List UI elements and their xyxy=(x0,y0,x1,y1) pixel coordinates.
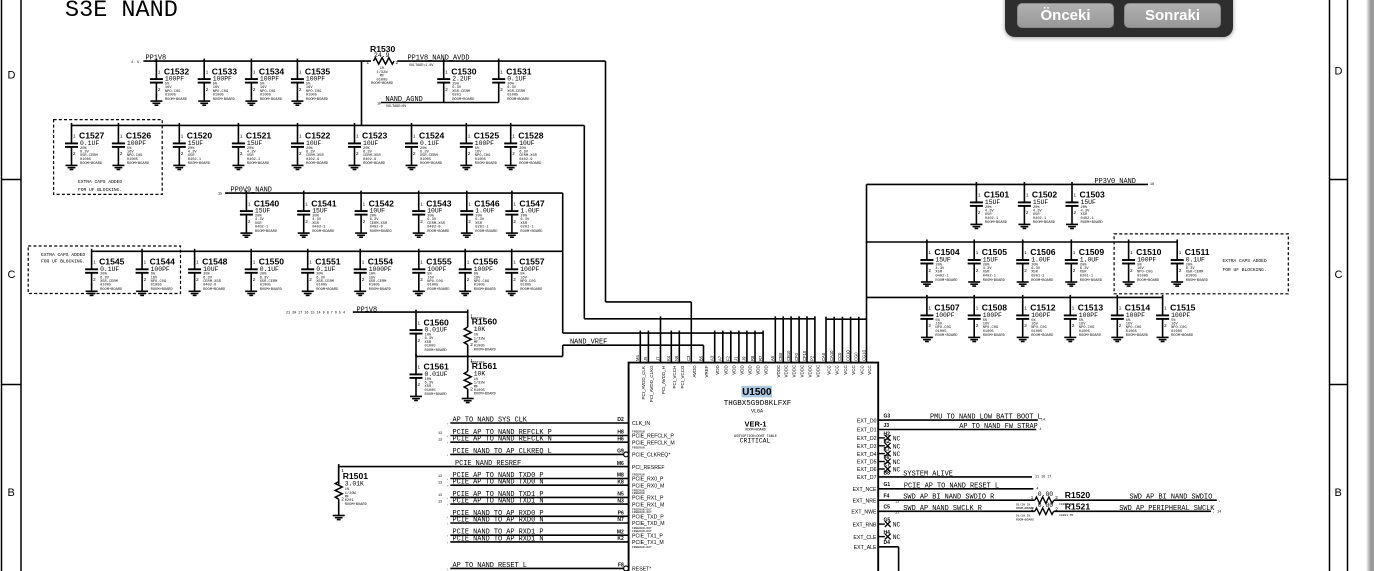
svg-text:EXT_D4: EXT_D4 xyxy=(857,452,877,458)
svg-text:2: 2 xyxy=(1119,323,1122,328)
button Sonraki xyxy=(1124,3,1221,28)
ground xyxy=(349,165,361,169)
svg-text:M4: M4 xyxy=(635,355,640,361)
svg-text:0402-9: 0402-9 xyxy=(427,225,440,229)
capacitor C1503 xyxy=(1066,182,1106,229)
svg-text:ROOM+BOARD: ROOM+BOARD xyxy=(427,288,450,292)
svg-text:2: 2 xyxy=(928,268,931,273)
svg-text:R8: R8 xyxy=(750,355,755,361)
svg-text:2: 2 xyxy=(500,87,503,92)
ground xyxy=(506,233,518,237)
svg-text:VDD: VDD xyxy=(723,364,728,374)
ground xyxy=(921,337,933,341)
svg-text:ROOM+BOARD: ROOM+BOARD xyxy=(151,288,174,292)
svg-text:C: C xyxy=(8,269,16,281)
capacitor C1524 xyxy=(405,123,445,170)
capacitor C1534 xyxy=(245,59,285,106)
svg-text:01005: 01005 xyxy=(425,344,436,348)
svg-text:VDDC: VDDC xyxy=(784,364,789,378)
find toolbar xyxy=(1005,0,1233,37)
ground xyxy=(968,282,980,286)
capacitor C1511 xyxy=(1171,240,1210,287)
wire row4 PP0V9 bus xyxy=(92,250,563,252)
svg-text:1: 1 xyxy=(299,69,302,74)
svg-text:M8: M8 xyxy=(617,473,624,479)
svg-text:VDD: VDD xyxy=(715,364,720,374)
svg-text:R1521: R1521 xyxy=(1065,501,1091,511)
svg-text:M6: M6 xyxy=(617,461,624,467)
svg-text:01005: 01005 xyxy=(260,93,271,97)
capacitor C1515 xyxy=(1156,295,1196,342)
ground xyxy=(1017,282,1029,286)
svg-text:SYSTEM ALIVE: SYSTEM ALIVE xyxy=(903,470,953,478)
svg-text:01005: 01005 xyxy=(420,158,431,162)
ground xyxy=(232,165,244,169)
svg-text:ROOM+BOARD: ROOM+BOARD xyxy=(983,334,1006,338)
ground xyxy=(112,165,124,169)
U1500 left pin M6 PCI_RESREF / net PCIE_NAND_RESREF xyxy=(339,460,665,471)
svg-text:H8: H8 xyxy=(617,430,624,436)
svg-text:ROOM+BOARD: ROOM+BOARD xyxy=(935,279,958,283)
svg-text:SWD AP PERIPHERAL SWCLK: SWD AP PERIPHERAL SWCLK xyxy=(1119,505,1215,513)
capacitor C1544 xyxy=(136,249,176,296)
ground xyxy=(413,291,425,295)
svg-text:ROOM+BOARD: ROOM+BOARD xyxy=(369,288,392,292)
svg-text:PCIE NAND TO AP RXD0 N: PCIE NAND TO AP RXD0 N xyxy=(453,517,544,525)
frame right inner line xyxy=(1329,0,1331,571)
svg-text:1: 1 xyxy=(1074,193,1077,198)
svg-text:N3: N3 xyxy=(617,498,624,504)
svg-text:0201-1: 0201-1 xyxy=(1031,274,1045,278)
svg-text:N5: N5 xyxy=(617,492,624,498)
svg-text:13: 13 xyxy=(438,439,442,443)
wire right row2 bus xyxy=(867,241,1178,243)
U1500 left pin K2 PCIE_TX1_M / net PCIE_NAND_TO_AP_RXD1_N xyxy=(447,535,664,549)
svg-text:15: 15 xyxy=(218,193,222,197)
svg-text:G1: G1 xyxy=(884,482,891,488)
svg-text:ROOM+BOARD: ROOM+BOARD xyxy=(203,288,226,292)
svg-text:VCC: VCC xyxy=(859,364,864,374)
svg-text:K2: K2 xyxy=(617,536,624,542)
U1500 top pin M4 PCI_AVDD_CLK xyxy=(635,331,646,400)
svg-text:ROOM+BOARD: ROOM+BOARD xyxy=(370,230,393,234)
svg-text:K8: K8 xyxy=(617,479,624,485)
svg-text:F4: F4 xyxy=(884,494,890,500)
svg-text:13: 13 xyxy=(438,482,442,486)
U1500 right pin C7 EXT_D6 xyxy=(857,462,901,473)
note extra caps row4 xyxy=(41,252,85,265)
svg-text:1: 1 xyxy=(362,260,365,265)
svg-text:EXTRA CAPS ADDED: EXTRA CAPS ADDED xyxy=(78,179,122,185)
ground xyxy=(1065,282,1077,286)
svg-text:R7: R7 xyxy=(758,355,763,361)
node PP1V8_NAND_AVDD xyxy=(408,55,470,69)
U1500 top pin CB0 VDDC xyxy=(778,316,789,377)
svg-text:J9: J9 xyxy=(742,356,747,361)
capacitor C1530 xyxy=(437,59,477,103)
dashed box extra caps row2 xyxy=(54,120,163,195)
ground xyxy=(970,224,982,228)
svg-text:2: 2 xyxy=(470,386,473,391)
svg-text:ROOM+BOARD: ROOM+BOARD xyxy=(427,230,450,234)
svg-text:13: 13 xyxy=(438,475,442,479)
svg-text:13: 13 xyxy=(438,494,442,498)
svg-text:1: 1 xyxy=(120,134,123,139)
svg-text:,: , xyxy=(1219,500,1221,504)
svg-text:ROOM+BOARD: ROOM+BOARD xyxy=(1079,334,1102,338)
svg-text:VDDC: VDDC xyxy=(776,364,781,378)
svg-text:0201: 0201 xyxy=(452,93,462,97)
svg-text:ROOM+BOARD: ROOM+BOARD xyxy=(127,162,150,166)
U1500 top pin CF0 VDDC xyxy=(794,316,805,377)
svg-text:CB10: CB10 xyxy=(786,350,791,361)
svg-text:EXT_D5: EXT_D5 xyxy=(857,460,877,466)
U1500 top pin R8 VDD xyxy=(750,331,761,375)
svg-text:01005: 01005 xyxy=(1031,330,1042,334)
svg-text:ROOM+BOARD: ROOM+BOARD xyxy=(507,98,530,102)
svg-text:01005: 01005 xyxy=(165,93,176,97)
svg-text:N6: N6 xyxy=(674,355,679,361)
wire NAND_VREF riser xyxy=(562,345,564,356)
svg-text:0402-1: 0402-1 xyxy=(1081,217,1095,221)
svg-text:,: , xyxy=(447,515,449,519)
svg-text:G9: G9 xyxy=(617,449,624,455)
svg-text:ROOM+BOARD: ROOM+BOARD xyxy=(306,162,329,166)
svg-text:EXT_NRE: EXT_NRE xyxy=(853,498,877,504)
svg-text:A7: A7 xyxy=(718,355,723,361)
svg-text:1: 1 xyxy=(299,134,302,139)
svg-text:1: 1 xyxy=(1031,495,1034,500)
U1500 right pin E7 EXT_D4 xyxy=(857,447,901,458)
svg-text:01005: 01005 xyxy=(983,330,994,334)
svg-text:0201-1: 0201-1 xyxy=(1080,274,1094,278)
wire NAND_VREF mid bus xyxy=(416,355,563,357)
svg-text:1: 1 xyxy=(420,201,423,206)
capacitor C1526 xyxy=(112,123,152,170)
svg-text:R1561: R1561 xyxy=(472,361,498,371)
svg-text:01005: 01005 xyxy=(1186,274,1197,278)
svg-text:PCI_AVDD_CLKG: PCI_AVDD_CLKG xyxy=(649,365,654,402)
svg-text:G3: G3 xyxy=(884,414,891,420)
capacitor C1548 xyxy=(188,249,228,296)
svg-text:2: 2 xyxy=(363,219,366,224)
svg-text:4: 4 xyxy=(1039,428,1041,432)
capacitor C1541 xyxy=(297,191,337,238)
svg-text:VDDC: VDDC xyxy=(800,364,805,378)
capacitor C1554 xyxy=(354,249,394,296)
capacitor C1501 xyxy=(970,182,1010,229)
svg-text:01005: 01005 xyxy=(369,284,380,288)
ground xyxy=(86,291,98,295)
svg-text:PCIE AP TO NAND RESET L: PCIE AP TO NAND RESET L xyxy=(904,482,999,490)
ground xyxy=(460,165,472,169)
svg-text:C: C xyxy=(1335,269,1343,281)
svg-text:ROOM+BOARD: ROOM+BOARD xyxy=(520,230,543,234)
resistor R1530 xyxy=(367,44,399,86)
capacitor C1513 xyxy=(1064,295,1104,342)
svg-text:B: B xyxy=(8,487,15,499)
svg-text:01005: 01005 xyxy=(427,284,438,288)
svg-text:1: 1 xyxy=(976,306,979,311)
capacitor C1540 xyxy=(240,191,280,238)
capacitor C1512 xyxy=(1016,295,1056,342)
svg-text:0402-1: 0402-1 xyxy=(188,158,202,162)
svg-text:1: 1 xyxy=(500,69,503,74)
svg-text:EXT_NCE: EXT_NCE xyxy=(853,487,877,493)
svg-text:ROOM+BOARD: ROOM+BOARD xyxy=(520,288,543,292)
ground xyxy=(245,101,257,105)
svg-text:0402-9: 0402-9 xyxy=(363,158,376,162)
U1500 top pin K4 PCI_VCCH xyxy=(666,331,677,389)
svg-text:1: 1 xyxy=(196,260,199,265)
wire VCC bus xyxy=(826,318,867,320)
resistor R1560 xyxy=(464,310,497,357)
svg-text:J5: J5 xyxy=(643,356,648,361)
svg-text:1: 1 xyxy=(93,260,96,265)
U1500 left pin G9 PCIE_CLKREQ* / net PCIE_NAND_TO_AP_CLKREQ_L xyxy=(447,448,670,459)
svg-text:EXT_D6: EXT_D6 xyxy=(857,467,877,473)
ground xyxy=(506,291,518,295)
svg-text:1: 1 xyxy=(418,320,421,325)
svg-text:ROOM+BOARD: ROOM+BOARD xyxy=(363,162,386,166)
capacitor C1525 xyxy=(460,123,500,170)
svg-text:,: , xyxy=(447,522,449,526)
svg-text:NC: NC xyxy=(893,522,901,529)
svg-text:,: , xyxy=(447,496,449,500)
svg-text:0402-1: 0402-1 xyxy=(312,225,326,229)
wire row2 bus drop to VDDC bus xyxy=(583,125,585,318)
svg-text:VDD: VDD xyxy=(764,364,769,374)
U1500 top pin CA0 VCC xyxy=(821,317,832,375)
ground xyxy=(413,233,425,237)
svg-text:NC: NC xyxy=(893,459,901,466)
svg-text:1: 1 xyxy=(418,365,421,370)
capacitor C1509 xyxy=(1065,240,1105,287)
svg-text:0402-1: 0402-1 xyxy=(247,158,261,162)
svg-text:VER-1: VER-1 xyxy=(744,420,766,429)
svg-text:ROOM+BOARD: ROOM+BOARD xyxy=(371,82,394,86)
frame left row divider C/B xyxy=(2,384,22,386)
ground xyxy=(505,165,517,169)
wire VDD bus xyxy=(563,332,763,334)
svg-text:2: 2 xyxy=(356,151,359,156)
svg-text:RESET*: RESET* xyxy=(632,567,651,571)
svg-text:ROOM+BOARD: ROOM+BOARD xyxy=(165,98,188,102)
svg-text:CLK_IN: CLK_IN xyxy=(632,421,650,427)
svg-text:2: 2 xyxy=(1073,268,1076,273)
svg-text:3.01K: 3.01K xyxy=(345,481,364,488)
svg-text:0402-1: 0402-1 xyxy=(255,225,269,229)
svg-text:2: 2 xyxy=(513,219,516,224)
svg-text:2: 2 xyxy=(299,87,302,92)
ground xyxy=(245,291,257,295)
ground xyxy=(66,165,78,169)
net SWD_AP_BI_NAND_SWDIO_R xyxy=(878,494,1035,511)
svg-text:EXT_RNB: EXT_RNB xyxy=(853,522,877,528)
svg-text:CA10: CA10 xyxy=(829,350,834,361)
svg-text:2: 2 xyxy=(73,151,76,156)
wire PP0V9 rail xyxy=(225,192,563,194)
svg-text:A5: A5 xyxy=(770,355,775,361)
U1500 top pin CG10 VCC xyxy=(861,349,872,374)
svg-text:D: D xyxy=(1335,66,1343,78)
svg-text:VCC: VCC xyxy=(867,364,872,374)
capacitor C1506 xyxy=(1016,240,1056,287)
capacitor C1545 xyxy=(85,249,125,296)
wire PP1V8_NAND_AVDD xyxy=(397,60,605,62)
U1500 top pin C3 AVDD xyxy=(686,355,697,378)
svg-text:1: 1 xyxy=(356,134,359,139)
svg-text:ROOM+BOARD: ROOM+BOARD xyxy=(260,288,283,292)
capacitor C1523 xyxy=(348,123,388,170)
svg-text:01005: 01005 xyxy=(306,93,317,97)
U1500 right pin C5 EXT_NWE xyxy=(851,505,890,516)
svg-text:2: 2 xyxy=(196,277,199,282)
resistor R1521 xyxy=(1031,501,1091,514)
dashed box extra caps row4 xyxy=(28,246,180,294)
svg-text:2: 2 xyxy=(206,87,209,92)
U1500 top pin J1 VDD xyxy=(734,331,745,375)
svg-text:N7: N7 xyxy=(617,517,624,523)
U1500 top pin A7 VDD xyxy=(718,331,729,375)
svg-text:THGBX5G9D8KLFXF: THGBX5G9D8KLFXF xyxy=(724,400,792,408)
svg-text:1: 1 xyxy=(248,201,251,206)
svg-text:0201-1: 0201-1 xyxy=(520,225,534,229)
ground xyxy=(150,101,162,105)
svg-text:ROOM+BOARD: ROOM+BOARD xyxy=(247,162,270,166)
svg-text:PCIE_RX0_P: PCIE_RX0_P xyxy=(632,477,664,483)
frame right row divider C/B xyxy=(1330,384,1348,386)
frame right row divider D/C xyxy=(1330,179,1348,181)
svg-text:2: 2 xyxy=(299,151,302,156)
U1500 right pin H4 EXT_CLE xyxy=(853,530,900,541)
ground xyxy=(354,291,366,295)
svg-text:2: 2 xyxy=(158,87,161,92)
svg-text:01005: 01005 xyxy=(260,284,271,288)
svg-text:FREERUN-OUT: FREERUN-OUT xyxy=(632,511,652,514)
svg-text:F8: F8 xyxy=(618,563,624,569)
net SWD_AP_BI_NAND_SWDIO xyxy=(1054,494,1221,506)
svg-text:ROOM+BOARD: ROOM+BOARD xyxy=(983,279,1006,283)
svg-text:0.00: 0.00 xyxy=(1038,491,1054,498)
svg-text:ROOM+BOARD: ROOM+BOARD xyxy=(475,230,498,234)
svg-text:CF0: CF0 xyxy=(794,352,799,361)
ground xyxy=(1171,282,1183,286)
U1500 right pin G1 EXT_NCE xyxy=(853,482,1039,493)
svg-text:VCC: VCC xyxy=(843,364,848,374)
wire AVDD vertical down xyxy=(605,61,607,302)
svg-text:0402-9: 0402-9 xyxy=(306,158,319,162)
svg-text:FOR UF BLOCKING.: FOR UF BLOCKING. xyxy=(1223,267,1267,273)
U1500 top pin J7 PCI_AVDD_H xyxy=(655,316,666,394)
ground xyxy=(298,233,310,237)
svg-text:EXT_NWE: EXT_NWE xyxy=(851,510,877,516)
svg-text:ROOM+BOARD: ROOM+BOARD xyxy=(745,429,765,433)
svg-text:ROOM+BOARD: ROOM+BOARD xyxy=(1171,334,1194,338)
svg-text:A3: A3 xyxy=(710,355,715,361)
svg-text:CC0: CC0 xyxy=(837,352,842,361)
resistor R1561 xyxy=(462,354,498,403)
ground xyxy=(355,233,367,237)
wire NAND_AGND xyxy=(381,102,499,104)
svg-text:PCIE NAND RESREF: PCIE NAND RESREF xyxy=(455,460,521,468)
svg-text:,: , xyxy=(447,503,449,507)
svg-text:2: 2 xyxy=(420,277,423,282)
svg-text:PCI_RESREF: PCI_RESREF xyxy=(632,465,665,471)
ground xyxy=(1123,282,1135,286)
svg-text:1: 1 xyxy=(206,69,209,74)
svg-text:2: 2 xyxy=(253,277,256,282)
svg-text:1: 1 xyxy=(1031,506,1034,511)
svg-text:CG10: CG10 xyxy=(861,349,866,361)
svg-text:U1500: U1500 xyxy=(742,387,772,398)
ground xyxy=(1018,224,1030,228)
U1500 left pin M2 PCIE_TX1_P / net PCIE_NAND_TO_AP_RXD1_P xyxy=(447,529,663,540)
U1500 top pin B5 VREF xyxy=(698,355,709,377)
svg-text:1: 1 xyxy=(467,260,470,265)
svg-text:1: 1 xyxy=(158,69,161,74)
U1500 top pin CC10 VCC xyxy=(845,317,856,375)
svg-text:FREERUN: FREERUN xyxy=(632,446,645,449)
svg-text:J1: J1 xyxy=(734,356,739,361)
svg-text:D1/2W 5%: D1/2W 5% xyxy=(1016,503,1031,507)
svg-text:ROOM+BOARD: ROOM+BOARD xyxy=(188,162,211,166)
wire AVDD pin lead down to chip xyxy=(690,302,692,363)
wire PP1V8 rail xyxy=(143,60,371,62)
svg-text:ROOM+BOARD: ROOM+BOARD xyxy=(474,393,497,397)
ground xyxy=(968,337,980,341)
svg-text:PCI_VCCG: PCI_VCCG xyxy=(680,365,685,389)
capacitor C1557 xyxy=(505,249,545,296)
svg-text:01005: 01005 xyxy=(425,389,436,393)
svg-text:ROOM+BOARD: ROOM+BOARD xyxy=(519,162,542,166)
svg-text:2: 2 xyxy=(976,323,979,328)
svg-text:2: 2 xyxy=(120,151,123,156)
capacitor C1520 xyxy=(173,123,213,170)
svg-text:ROOM+BOARD: ROOM+BOARD xyxy=(255,230,278,234)
svg-text:0402-1: 0402-1 xyxy=(985,217,999,221)
capacitor C1507 xyxy=(920,295,960,342)
svg-text:SWD AP BI NAND SWDIO R: SWD AP BI NAND SWDIO R xyxy=(903,494,994,502)
U1500 left pin N3 PCIE_RX1_M / net PCIE_AP_TO_NAND_TXD1_N xyxy=(438,498,664,512)
svg-text:VCC: VCC xyxy=(851,364,856,374)
wire VDDC bus xyxy=(584,318,815,320)
svg-text:2: 2 xyxy=(1164,323,1167,328)
svg-text:SWD AP BI NAND SWDIO: SWD AP BI NAND SWDIO xyxy=(1130,494,1213,502)
svg-text:01005: 01005 xyxy=(935,330,946,334)
U1500 top pin CC0 VCC xyxy=(837,317,848,375)
svg-text:,: , xyxy=(447,441,449,445)
svg-text:ROOM+BOARD: ROOM+BOARD xyxy=(1126,334,1149,338)
U1500 left pin M8 PCIE_RX0_P / net PCIE_AP_TO_NAND_TXD0_P xyxy=(438,472,664,483)
node PP3V0_NAND xyxy=(1095,178,1155,187)
svg-text:ROOM+BOARD: ROOM+BOARD xyxy=(1186,279,1209,283)
svg-text:ROOM+BOARD: ROOM+BOARD xyxy=(306,98,329,102)
capacitor C1510 xyxy=(1122,240,1162,287)
capacitor C1542 xyxy=(355,191,395,238)
svg-text:ROOM+BOARD: ROOM+BOARD xyxy=(420,162,443,166)
svg-text:1: 1 xyxy=(513,201,516,206)
svg-text:2: 2 xyxy=(1024,323,1027,328)
U1500 left pin N5 PCIE_RX1_P / net PCIE_AP_TO_NAND_TXD1_P xyxy=(438,491,664,502)
svg-text:1: 1 xyxy=(363,201,366,206)
svg-text:,: , xyxy=(447,534,449,538)
ground xyxy=(462,399,474,403)
svg-text:P2: P2 xyxy=(810,355,815,361)
svg-text:2: 2 xyxy=(253,87,256,92)
svg-text:D2: D2 xyxy=(617,417,624,423)
svg-text:ROOM+BOARD: ROOM+BOARD xyxy=(345,503,368,507)
